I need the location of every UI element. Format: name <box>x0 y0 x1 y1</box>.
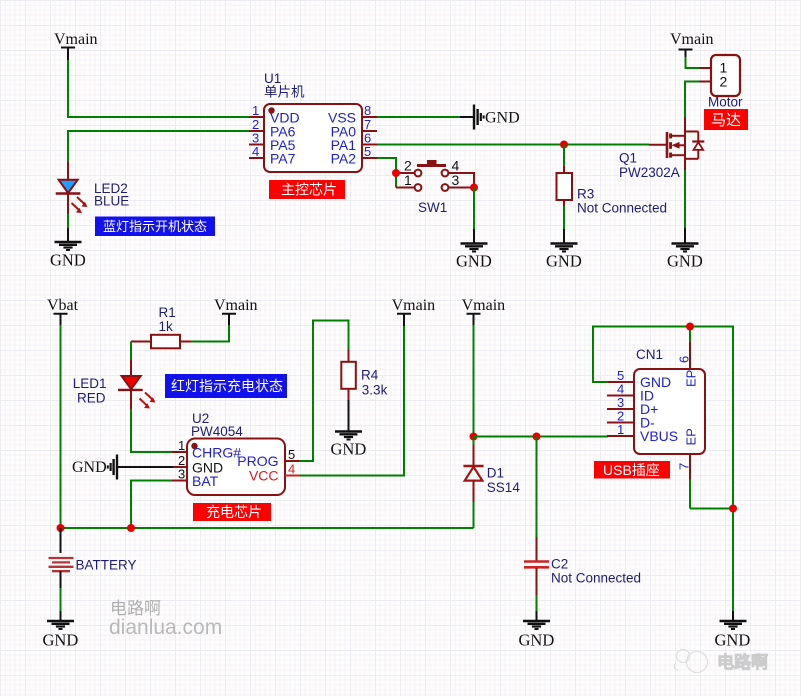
SECTION CN1 <box>593 323 750 650</box>
wire U2 BAT to bus <box>131 481 172 529</box>
power flag Vmain (above D1) <box>462 297 506 326</box>
wire PA2 to SW1 <box>377 158 396 172</box>
svg-text:1: 1 <box>404 172 412 188</box>
U2 pin 4 VCC <box>249 462 300 484</box>
svg-text:Not Connected: Not Connected <box>577 201 667 216</box>
power flag Vmain (above R1) <box>214 297 258 326</box>
wire drain red segment <box>684 117 686 132</box>
wire EP7 to junction <box>690 508 733 510</box>
wire Vbat down to battery bus <box>60 325 62 528</box>
svg-text:GND: GND <box>456 252 492 271</box>
ground under LED2 <box>50 228 86 269</box>
svg-text:BLUE: BLUE <box>94 194 129 209</box>
svg-text:4: 4 <box>288 462 295 477</box>
node junction SW1 pin3 <box>470 184 478 192</box>
U1 pin 2 PA6 <box>249 117 296 140</box>
svg-text:R4: R4 <box>361 368 379 383</box>
svg-text:Q1: Q1 <box>619 151 637 166</box>
svg-text:BAT: BAT <box>192 473 219 489</box>
svg-text:3: 3 <box>452 172 460 188</box>
node junction EP6 <box>686 323 694 331</box>
U1 pin 7 PA0 <box>331 117 377 140</box>
svg-text:3: 3 <box>178 467 185 482</box>
svg-text:GND: GND <box>50 250 86 269</box>
usb connector CN1 body <box>634 369 705 454</box>
ground under R3 <box>546 229 582 271</box>
CN1 pin 3 D+ <box>607 395 658 417</box>
svg-text:USB插座: USB插座 <box>603 462 660 478</box>
CN1 pin 6 EP top <box>677 327 699 388</box>
U1 pin 5 PA2 <box>331 144 377 167</box>
svg-text:GND: GND <box>72 459 107 476</box>
svg-text:GND: GND <box>485 110 520 127</box>
U2 pin 5 PROG <box>237 447 300 469</box>
svg-text:EP: EP <box>684 370 699 387</box>
label U2 PW4054 <box>191 411 243 439</box>
diode D1 SS14 <box>463 437 483 504</box>
node junction C2/VBUS <box>533 433 541 441</box>
charger U2 body <box>187 439 285 496</box>
svg-text:1: 1 <box>617 422 624 437</box>
resistor R1 <box>131 335 191 349</box>
wire U2 PROG to R4 top <box>299 321 349 462</box>
svg-text:R3: R3 <box>577 187 594 202</box>
svg-text:BATTERY: BATTERY <box>76 558 137 573</box>
SECTION BOTTOM <box>43 297 642 650</box>
svg-text:GND: GND <box>715 631 751 650</box>
svg-text:电路啊: 电路啊 <box>717 652 768 672</box>
svg-text:CN1: CN1 <box>636 347 663 362</box>
svg-text:单片机: 单片机 <box>264 85 305 100</box>
svg-text:Vmain: Vmain <box>54 31 98 48</box>
wire Vmain to U1 VDD pin1 <box>68 60 249 117</box>
svg-text:Vmain: Vmain <box>462 297 506 314</box>
svg-text:SW1: SW1 <box>418 200 447 215</box>
power flag Vmain (above VCC wire) <box>392 297 436 326</box>
ground bottom right <box>715 611 751 650</box>
U2 pin 2 GND <box>172 453 223 476</box>
label Q1 PW2302A <box>619 151 680 181</box>
ground sideways (left of U2 GND pin) <box>72 455 173 480</box>
wire VBUS line <box>474 436 609 438</box>
label LED2 BLUE <box>94 181 129 209</box>
wire R1 left to LED1 anode <box>130 342 132 362</box>
svg-text:GND: GND <box>331 440 367 459</box>
svg-text:2: 2 <box>720 74 728 90</box>
wire D1 anode to bus <box>473 502 475 528</box>
ground sideways (right of VSS) <box>460 105 520 130</box>
U1 pin 4 PA7 <box>249 144 296 167</box>
svg-text:蓝灯指示开机状态: 蓝灯指示开机状态 <box>103 219 207 234</box>
U2 pin 3 BAT <box>172 467 219 490</box>
wire Vmain to R1 right <box>190 325 229 342</box>
svg-text:VCC: VCC <box>249 468 279 484</box>
label R4 3.3k <box>361 368 388 398</box>
mcu U1 body <box>264 104 362 172</box>
svg-text:5: 5 <box>364 144 371 159</box>
svg-text:充电芯片: 充电芯片 <box>206 504 262 520</box>
svg-text:GND: GND <box>43 631 79 650</box>
svg-text:LED1: LED1 <box>73 376 107 391</box>
node junction SW1 pin2 <box>392 169 400 177</box>
svg-text:PA7: PA7 <box>270 151 296 167</box>
ground under battery <box>43 611 79 650</box>
resistor R3 <box>557 145 573 231</box>
label C2 Not Connected <box>551 557 641 586</box>
svg-text:3.3k: 3.3k <box>362 383 388 398</box>
svg-text:主控芯片: 主控芯片 <box>281 182 337 198</box>
power flag Vmain (top right) <box>670 31 714 58</box>
U2 pin 1 CHRG# <box>172 438 241 461</box>
annotation blue box 蓝灯指示开机状态 <box>95 217 215 237</box>
svg-text:CHRG#: CHRG# <box>192 445 241 461</box>
svg-text:红灯指示充电状态: 红灯指示充电状态 <box>171 378 283 394</box>
svg-text:C2: C2 <box>551 557 568 572</box>
svg-text:Vbat: Vbat <box>47 297 79 314</box>
wire battery to ground <box>60 588 62 612</box>
wire PA1 to Q1 gate <box>377 144 649 146</box>
annotation red box USB插座 <box>594 461 670 479</box>
CN1 pin 7 EP bottom <box>677 428 699 508</box>
svg-text:4: 4 <box>252 144 259 159</box>
svg-text:GND: GND <box>667 252 703 271</box>
label D1 SS14 <box>487 466 521 496</box>
wire Q1 source to ground <box>684 170 686 229</box>
node junction D1/VBUS <box>470 433 478 441</box>
svg-text:Vmain: Vmain <box>214 297 258 314</box>
node junction EP7 <box>729 505 737 513</box>
wire Vmain to Motor pin1 <box>686 57 701 68</box>
svg-text:R1: R1 <box>159 305 176 320</box>
wire C2 top <box>536 437 538 539</box>
svg-text:GND: GND <box>519 631 555 650</box>
svg-text:5: 5 <box>288 447 295 462</box>
svg-text:1k: 1k <box>159 319 174 334</box>
annotation blue box 红灯指示充电状态 <box>165 374 287 398</box>
mosfet Q1 PW2302A <box>649 132 704 172</box>
svg-text:D1: D1 <box>487 466 504 481</box>
svg-text:dianlua.com: dianlua.com <box>109 616 222 639</box>
svg-text:1: 1 <box>178 438 185 453</box>
node junction BAT/bus <box>127 524 135 532</box>
LED1 <box>118 360 156 410</box>
svg-text:8: 8 <box>364 103 371 118</box>
ground under C2 <box>519 611 555 650</box>
SECTION TOP RIGHT <box>392 31 748 271</box>
wire U1 PA6 pin2 to LED2 anode <box>68 131 249 164</box>
CN1 pin 5 GND <box>607 368 671 390</box>
annotation red box 充电芯片 <box>193 503 271 521</box>
label R1 1k <box>159 305 176 334</box>
annotation red box 马达 <box>704 109 748 130</box>
SECTION U1 <box>249 71 649 199</box>
battery BT1 <box>49 528 74 589</box>
power flag Vbat <box>47 297 79 326</box>
wire LED2 cathode to ground <box>67 214 69 229</box>
wire battery bus <box>61 527 474 529</box>
wire C2 to ground <box>536 595 538 612</box>
svg-text:SS14: SS14 <box>487 480 521 495</box>
svg-text:7: 7 <box>677 463 692 470</box>
node junction Vbat/bus <box>57 524 65 532</box>
U1 pin 6 PA1 <box>331 131 377 154</box>
ground under R4 <box>331 400 367 459</box>
svg-text:EP: EP <box>684 428 699 445</box>
label U1 单片机 <box>264 71 305 100</box>
annotation red box 主控芯片 <box>269 180 345 199</box>
wire LED1 cathode to U2 CHRG# <box>131 409 172 452</box>
svg-text:PA2: PA2 <box>331 151 357 167</box>
wire CN1 GND loop to EP <box>593 327 733 613</box>
wire Vmain to D1 node <box>473 325 475 437</box>
ground under SW1 <box>456 229 492 271</box>
svg-text:1: 1 <box>252 103 259 118</box>
switch SW1 <box>396 158 474 191</box>
svg-text:RED: RED <box>77 391 106 406</box>
resistor R4 <box>341 349 356 401</box>
svg-text:GND: GND <box>546 252 582 271</box>
label R3 Not Connected <box>577 187 667 216</box>
label LED1 RED <box>73 376 107 406</box>
connector Motor <box>699 55 740 96</box>
watermark logo cloud <box>674 650 707 673</box>
U1 pin 1 VDD <box>249 103 300 126</box>
U1 pin 3 PA5 <box>249 131 296 154</box>
svg-text:6: 6 <box>677 356 692 363</box>
svg-text:Vmain: Vmain <box>392 297 436 314</box>
wire SW1 to ground <box>473 188 475 231</box>
SECTION WATERMARK <box>109 599 768 673</box>
ground under Q1 <box>667 228 703 271</box>
SECTION TOP LEFT <box>50 31 249 269</box>
wire VSS to GND <box>377 116 461 118</box>
LED2 <box>56 162 88 215</box>
svg-text:Vmain: Vmain <box>670 31 714 48</box>
node junction PA1/R3 <box>560 141 568 149</box>
svg-text:VBUS: VBUS <box>640 428 678 444</box>
CN1 pin 4 ID <box>607 382 654 404</box>
U1 pin 8 VSS <box>328 103 377 126</box>
CN1 pin 1 VBUS <box>607 422 678 444</box>
SECTION U2 <box>72 297 435 528</box>
svg-text:马达: 马达 <box>711 112 741 129</box>
svg-text:Not Connected: Not Connected <box>551 571 641 586</box>
SECTION MID LEFT <box>47 297 287 528</box>
svg-text:Motor: Motor <box>708 95 743 110</box>
wire U2 VCC to Vmain <box>299 325 404 476</box>
capacitor C2 <box>524 537 549 596</box>
CN1 pin 2 D- <box>607 409 655 431</box>
wire Motor pin2 to Q1 drain <box>685 82 700 119</box>
svg-text:PW2302A: PW2302A <box>619 165 680 180</box>
svg-text:PW4054: PW4054 <box>191 424 243 439</box>
power flag Vmain (top left) <box>54 31 98 60</box>
